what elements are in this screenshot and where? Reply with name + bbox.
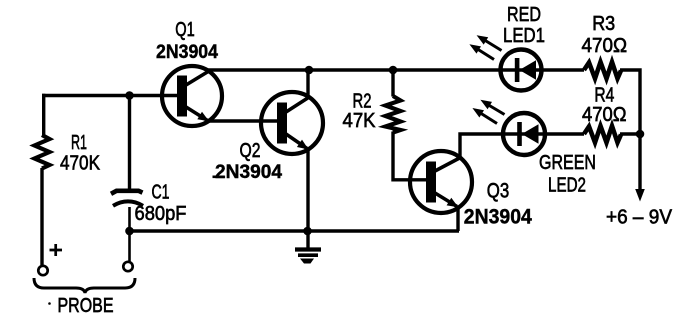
svg-text:PROBE: PROBE: [58, 295, 114, 317]
svg-text:470Ω: 470Ω: [582, 104, 627, 126]
label Q2 2N3904: [215, 162, 282, 183]
label +6-9V: [606, 207, 673, 229]
underline mark before Q2 2N3904: [213, 176, 225, 179]
wire: LED2 row from R4 to right rail junction: [620, 132, 640, 135]
junction node: top rail / R2: [389, 66, 398, 75]
wire: Q1 emitter to Q2 base link: [207, 119, 278, 122]
svg-text:C1: C1: [152, 182, 170, 204]
label R2: [353, 91, 372, 113]
capacitor C1 top plate: [111, 191, 143, 194]
LED2 light arrow upper: [480, 100, 504, 115]
wire: ground rail: [130, 229, 460, 233]
label C1: [152, 182, 170, 204]
wire: Q2 emitter down to ground rail: [306, 150, 309, 232]
label PROBE: [48, 295, 113, 317]
wire: C1 top lead from base node: [128, 96, 131, 191]
supply arrow to +6-9V: [635, 134, 645, 202]
svg-text:Q1: Q1: [175, 19, 195, 41]
wire: Q1 base lead from R1 top node: [42, 94, 178, 97]
ground symbol: [295, 234, 321, 264]
label 680pF: [135, 203, 187, 225]
LED2 green diode symbol: [503, 113, 545, 155]
label R3: [592, 13, 615, 35]
wire: top rail from R3 to +V corner: [620, 68, 642, 134]
label 470ohm R4: [582, 104, 627, 126]
label Q3 2N3904: [464, 206, 532, 229]
label R1: [71, 132, 87, 154]
resistor R1 470K zigzag: [35, 135, 50, 169]
junction node: R1 / C1 / Q1 base: [125, 91, 134, 100]
transistor Q3 2N3904: [410, 151, 472, 213]
label 47K: [343, 110, 377, 132]
label LED1: [503, 25, 545, 47]
svg-text:LED2: LED2: [548, 175, 586, 197]
wire: left vertical through R1 down to probe + terminal: [42, 94, 44, 266]
capacitor C1 bottom plate: [113, 201, 143, 205]
svg-text:GREEN: GREEN: [539, 152, 596, 174]
junction node: R4 / +V rail: [636, 130, 645, 139]
probe brace: [34, 278, 135, 293]
label GREEN: [539, 152, 596, 174]
svg-text:47K: 47K: [343, 110, 377, 132]
svg-text:680pF: 680pF: [135, 203, 187, 225]
svg-text:LED1: LED1: [503, 25, 545, 47]
plus sign at probe: [50, 244, 63, 256]
LED2 light arrow lower: [472, 108, 497, 124]
label Q3: [487, 180, 510, 203]
label Q1 2N3904: [156, 42, 218, 63]
svg-text:+6 – 9V: +6 – 9V: [606, 207, 673, 229]
svg-text:2N3904: 2N3904: [156, 42, 218, 63]
label R4: [594, 85, 614, 107]
svg-text:Q3: Q3: [487, 180, 510, 203]
LED1 red diode symbol: [501, 50, 542, 91]
junction node: ground rail / Q2 emitter: [303, 227, 312, 236]
transistor Q2 2N3904: [261, 92, 323, 154]
label 470ohm R3: [582, 35, 628, 57]
label LED2: [548, 175, 586, 197]
svg-text:RED: RED: [507, 4, 541, 26]
svg-text:Q2: Q2: [240, 140, 261, 162]
probe terminal + (left): [38, 266, 47, 275]
junction node: C1 bottom / ground rail: [125, 227, 134, 236]
probe terminal (right): [123, 262, 132, 271]
wire: Q2 collector up to top rail node A: [306, 70, 309, 97]
svg-text:2N3904: 2N3904: [215, 162, 282, 183]
wire: Q3 emitter lead down to ground rail: [456, 207, 459, 232]
resistor R4 470ohm zigzag: [584, 126, 621, 143]
wire: Q3 collector up and right to LED2 row: [458, 134, 584, 158]
svg-text:470K: 470K: [60, 153, 101, 175]
LED1 light arrow lower: [469, 44, 494, 59]
wire: R2 bottom lead down and right to Q3 base: [391, 132, 427, 180]
svg-text:R3: R3: [592, 13, 615, 35]
resistor R2 47K zigzag: [386, 96, 401, 133]
label RED: [507, 4, 541, 26]
wire: C1 bottom lead to ground rail and right probe terminal: [128, 207, 131, 262]
resistor R3 470ohm zigzag: [584, 62, 621, 79]
junction node: Q1 and Q2 collectors on top rail: [305, 66, 314, 75]
svg-text:2N3904: 2N3904: [464, 206, 532, 229]
svg-text:470Ω: 470Ω: [582, 35, 628, 57]
label 470K: [60, 153, 101, 175]
transistor Q1 2N3904: [162, 66, 222, 126]
label Q1: [175, 19, 195, 41]
wire: R2 top lead from top rail: [391, 70, 394, 97]
LED1 light arrow upper: [477, 35, 502, 50]
label Q2: [240, 140, 261, 162]
svg-text:R1: R1: [71, 132, 87, 154]
wire: top rail node A (Q1 collector to R3, with Q2 collector and R2 taps): [207, 68, 584, 71]
